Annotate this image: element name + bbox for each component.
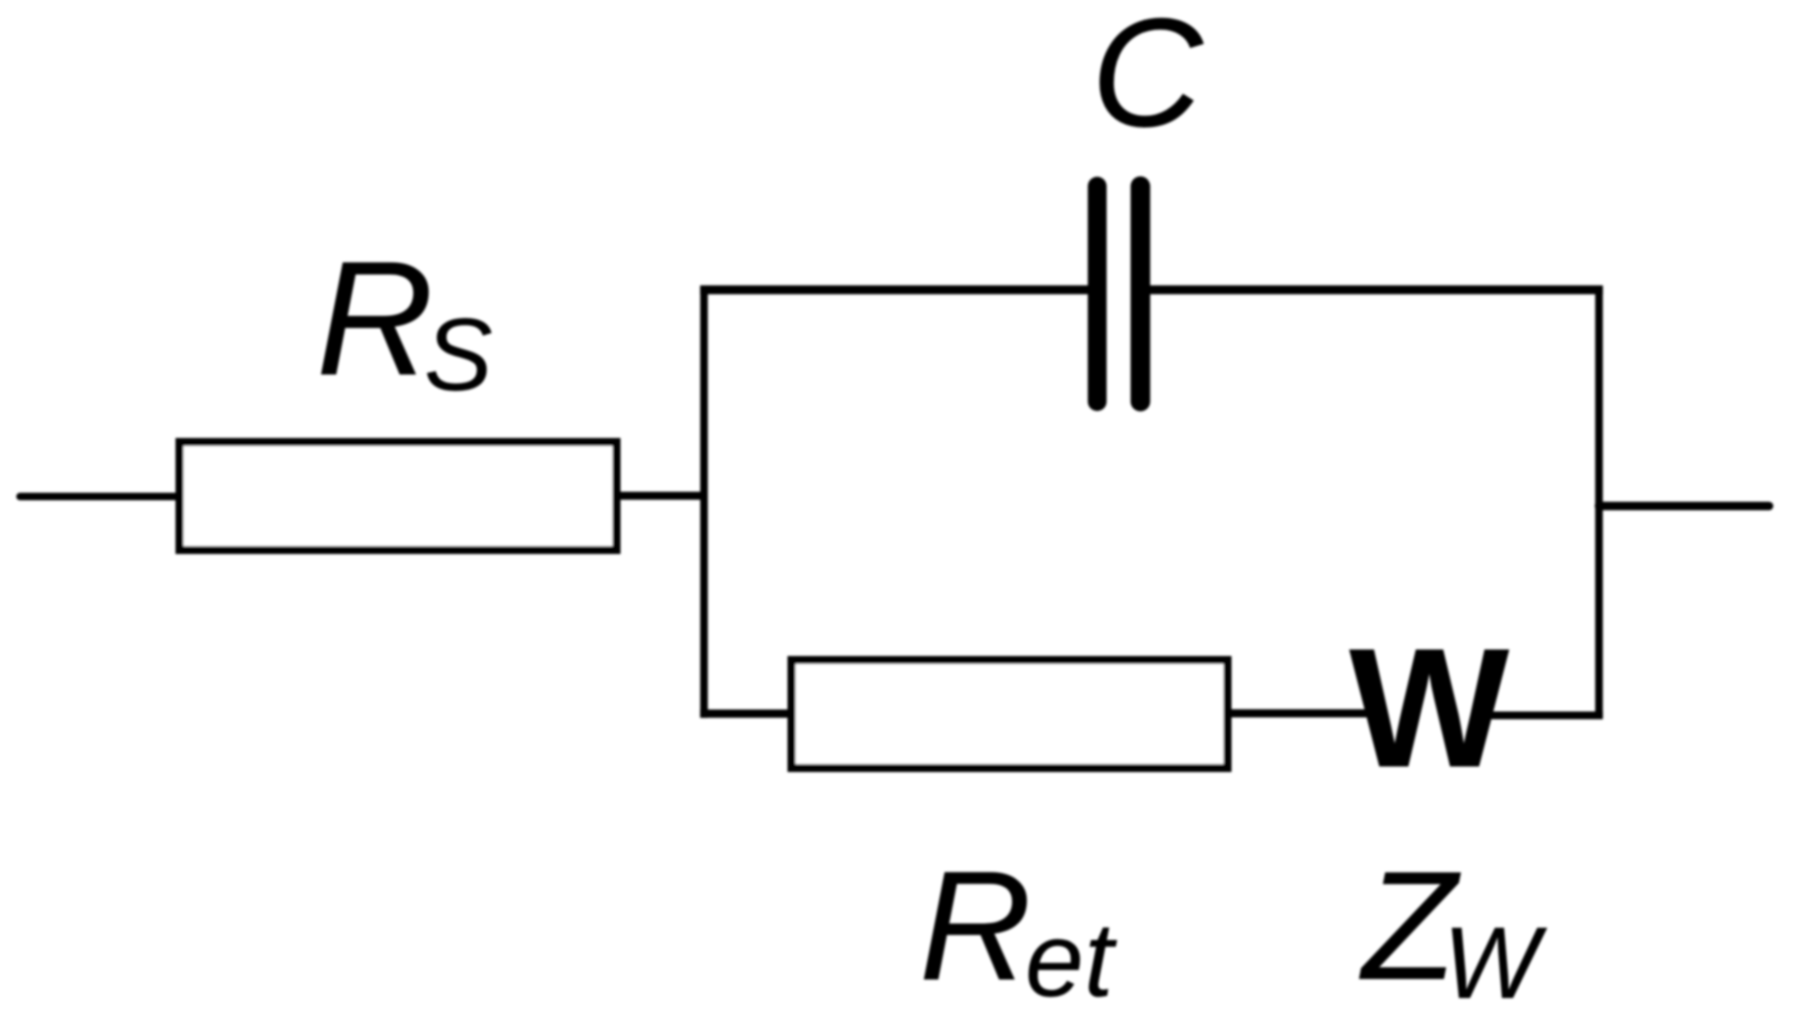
svg-text:et: et (1025, 901, 1118, 1017)
svg-text:S: S (424, 297, 493, 412)
svg-text:R: R (316, 227, 434, 410)
svg-text:W: W (1349, 614, 1510, 804)
svg-text:C: C (1091, 0, 1204, 159)
svg-text:W: W (1443, 906, 1548, 1017)
svg-text:R: R (919, 840, 1032, 1014)
